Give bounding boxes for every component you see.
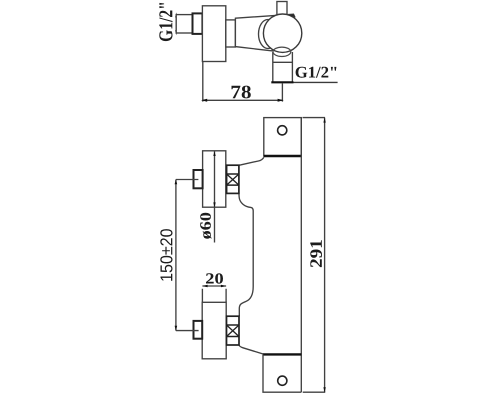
body left profile middle (top valve to bottom valve) [239,193,253,316]
inlet pipe [176,15,192,33]
dim 20 extension lines [202,289,226,303]
top valve cross [227,174,239,185]
bottom plate screw hole [278,376,287,385]
cone end cap ellipse [259,20,278,49]
dim 150+-20 text (rotated, sans) [160,229,172,281]
label G1/2 inlet (top-left, rotated) [159,3,172,41]
dim 78 line [202,99,282,101]
dim 20 text [206,273,223,283]
G1/2 dimension ticks [175,12,177,35]
bottom knob cap [194,321,203,339]
dim 78 arrow left [201,99,207,102]
dim 291 arrows [323,118,325,123]
shower outlet body [273,52,293,82]
body left profile lower (bottom valve to bottom plate) [239,345,263,354]
outlet pipe rim (ellipse) [273,47,291,56]
bottom valve box [227,316,240,345]
dim o60 line [214,151,216,242]
dim 78 text [232,86,251,99]
dim 20 line [202,285,226,287]
inlet nut [193,13,203,34]
body left profile upper (plate to top valve) [239,157,264,165]
label leader line [294,81,338,83]
body right edge [300,118,302,393]
top plate shadow line (thick) [264,155,302,157]
dim 150+-20 arrows [175,180,178,185]
bottom plate shadow line (thick) [263,353,301,355]
cartridge stem (small rect on top) [277,2,287,15]
bottom mounting plate [263,354,301,392]
label G1/2 outlet [296,67,337,78]
outlet thread face (thick) [271,81,293,83]
dim 291 extension lines [303,118,326,393]
dim 291 text (rotated) [310,240,322,267]
handle ball [263,14,301,52]
dim 291 line [324,118,326,393]
dim 78 arrow right [278,99,284,102]
top knob [203,151,226,207]
dim 78 extension lines [203,62,283,102]
wall bracket body [202,6,225,62]
bracket neck [226,20,236,47]
dim 150+-20 leaders [176,180,199,331]
bottom valve cross [227,325,240,337]
top valve box [227,165,239,193]
cone corner nub [288,14,295,17]
dim o60 text (rotated) [200,213,211,239]
top mounting plate [264,118,302,157]
dim 20 arrows [202,285,207,288]
dim 150+-20 line [175,180,177,331]
top knob cap [194,170,203,188]
dim o60 arrows [213,151,215,156]
bottom knob [202,302,226,359]
top plate screw hole [278,126,287,135]
mixer cone body [235,14,294,51]
